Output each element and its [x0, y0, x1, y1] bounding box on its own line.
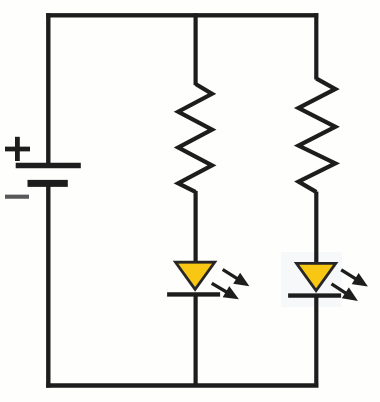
wire: middle branch LED-to-bottom: [194, 294, 198, 387]
battery B1 plates: [16, 166, 81, 184]
wire: right branch top drop: [314, 13, 318, 79]
wire: middle branch top drop: [194, 13, 198, 85]
wire: left vertical upper (top rail to battery +): [46, 13, 50, 164]
LED D1 (middle branch): [167, 261, 220, 295]
wire: top horizontal: [46, 13, 318, 17]
LED D2 light arrow upper: [338, 264, 372, 292]
wire: right branch LED-to-bottom: [314, 294, 318, 387]
battery + label: [5, 137, 30, 161]
LED D1 light arrow lower: [208, 278, 242, 305]
wire: right branch resistor-to-LED: [314, 192, 318, 265]
wire: left vertical lower (battery - to bottom rail): [46, 185, 50, 388]
wire: bottom horizontal: [46, 383, 318, 387]
LED D2 (right branch): [288, 262, 341, 296]
LED D2 light arrow lower: [328, 278, 361, 306]
resistor R1 (middle branch): [178, 84, 212, 192]
wire: middle branch resistor-to-LED: [194, 191, 198, 264]
battery - label: [5, 195, 29, 199]
faint box behind LED D2: [281, 252, 342, 307]
LED D1 light arrow upper: [219, 264, 253, 292]
resistor R2 (right branch): [299, 79, 336, 193]
